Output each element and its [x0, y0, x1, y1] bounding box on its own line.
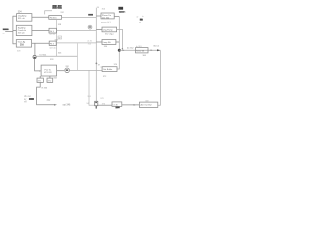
arrowhead bottom	[134, 104, 137, 106]
summing node	[33, 55, 36, 58]
svg-text:fo 361: fo 361	[136, 46, 142, 48]
junction node	[96, 63, 98, 65]
310 smudge	[88, 14, 93, 16]
svg-text:Loop Filt: Loop Filt	[103, 41, 111, 44]
stub bus row3	[96, 41, 102, 43]
svg-text:en: en	[139, 22, 141, 24]
svg-text:LC flt: LC flt	[113, 103, 118, 106]
filter box F1	[49, 16, 62, 20]
wire input	[5, 31, 13, 33]
vertical right x160	[158, 50, 161, 105]
svg-text:306: 306	[118, 7, 123, 11]
svg-text:fref 324: fref 324	[40, 55, 48, 57]
vertical join x119	[117, 17, 119, 70]
wire branch to summer	[34, 43, 36, 55]
svg-text:Det 350: Det 350	[102, 16, 110, 19]
svg-text:364 ck: 364 ck	[153, 45, 159, 47]
output box	[139, 102, 157, 107]
svg-text:ref: ref	[24, 101, 27, 104]
arrowhead output left	[54, 104, 57, 106]
wire row2 out	[117, 29, 123, 48]
svg-text:meas clk 3: meas clk 3	[101, 22, 111, 24]
pll box row1	[101, 13, 114, 19]
feedback wire horizontal	[36, 55, 77, 57]
arrowhead row2 down	[122, 48, 124, 50]
wire stub C	[13, 43, 16, 45]
crystal box right	[47, 78, 53, 82]
vertical feedback x56.6	[56, 19, 58, 56]
340 smudge	[29, 98, 34, 100]
svg-text:osc: osc	[100, 66, 103, 68]
306 dark smudge	[118, 7, 123, 10]
wire row B right	[56, 29, 96, 31]
bus vertical	[95, 8, 97, 102]
svg-text:div 362: div 362	[127, 48, 134, 50]
mixer M1	[65, 68, 70, 73]
crystal box left	[37, 78, 43, 82]
filter box F3	[49, 41, 56, 45]
wire crystal down	[37, 82, 54, 104]
svg-text:sys clk: sys clk	[119, 12, 127, 14]
bottom wire 1	[98, 104, 112, 106]
arrowhead chain1	[123, 50, 125, 52]
36 smudge	[140, 19, 143, 21]
svg-text:314: 314	[88, 44, 91, 46]
filter box F2	[49, 28, 56, 33]
wire summer to osc	[35, 59, 41, 71]
svg-text:313 am: 313 am	[18, 33, 25, 35]
sysclk smudge	[119, 11, 124, 13]
arrowhead into osc	[39, 70, 41, 71]
svg-text:Ant Out 352: Ant Out 352	[141, 104, 153, 107]
pll box row2	[102, 27, 117, 32]
wire row1 out	[114, 16, 119, 18]
stub bus row1	[96, 15, 101, 17]
wire row A right	[62, 16, 97, 18]
node symbol row B	[88, 25, 92, 29]
svg-text:dv: dv	[136, 17, 138, 19]
wire row A	[32, 16, 49, 18]
stub bus row2	[96, 28, 102, 30]
wire row B	[32, 30, 49, 32]
svg-text:in: in	[3, 33, 4, 35]
junction dot	[118, 49, 121, 52]
feedback wire vertical	[77, 43, 79, 70]
wire mixer out	[70, 69, 102, 71]
wire row C	[32, 42, 50, 44]
wire osc to mixer	[57, 70, 65, 72]
osc block	[41, 65, 57, 76]
svg-text:Filt 316: Filt 316	[50, 16, 58, 19]
amp block C	[16, 40, 31, 48]
component box on bus	[95, 101, 98, 105]
chain box	[136, 48, 149, 53]
svg-text:300 osc: 300 osc	[52, 7, 61, 10]
wire stub B	[13, 30, 16, 32]
302 smudge	[3, 29, 9, 31]
mid box	[102, 67, 117, 72]
wire stub A	[13, 15, 17, 17]
dark label below comp	[116, 107, 120, 109]
fig label smudge line2	[52, 7, 57, 9]
input label arrow	[8, 28, 10, 31]
svg-text:Gain Ag: Gain Ag	[18, 41, 26, 44]
wire branch down x89	[89, 70, 95, 105]
amp block B	[16, 25, 32, 35]
wire row C right	[56, 42, 96, 44]
summer dark mark	[34, 57, 36, 59]
leader line to F1	[45, 11, 52, 15]
ref box 320	[58, 36, 62, 39]
svg-text:out 346: out 346	[63, 104, 71, 107]
output chain wire	[119, 49, 160, 51]
pll box row3	[102, 40, 116, 45]
svg-text:ck 31: ck 31	[87, 41, 92, 43]
bus dark segment below component	[95, 106, 97, 109]
arrowhead chain mid	[151, 49, 153, 51]
svg-text:ck: ck	[142, 16, 144, 18]
svg-text:Chg Pump: Chg Pump	[103, 29, 114, 31]
svg-text:Out Buffer: Out Buffer	[103, 68, 113, 71]
wire row3 out	[116, 41, 119, 43]
mixer dark bar	[66, 70, 68, 71]
svg-text:VCO 33: VCO 33	[44, 72, 52, 74]
amp block A	[17, 14, 32, 22]
svg-text:N Div 36: N Div 36	[136, 51, 145, 53]
svg-text:322 dcs: 322 dcs	[49, 48, 56, 50]
arrowhead chain2 dark	[157, 49, 160, 51]
svg-text:Vt 336: Vt 336	[41, 87, 48, 90]
component inner mark	[95, 102, 97, 103]
svg-text:340: 340	[29, 98, 34, 101]
bottom wire 2	[122, 104, 140, 106]
stub crystal left	[39, 76, 41, 78]
svg-text:352 chg p: 352 chg p	[105, 33, 115, 35]
bottom comp box	[112, 102, 122, 107]
svg-text:311 ckt: 311 ckt	[18, 17, 25, 20]
svg-text:320 dv: 320 dv	[49, 34, 55, 36]
fig label smudge line1	[52, 5, 56, 7]
stub crystal right	[49, 76, 51, 78]
wire fanout vertical	[12, 16, 14, 44]
